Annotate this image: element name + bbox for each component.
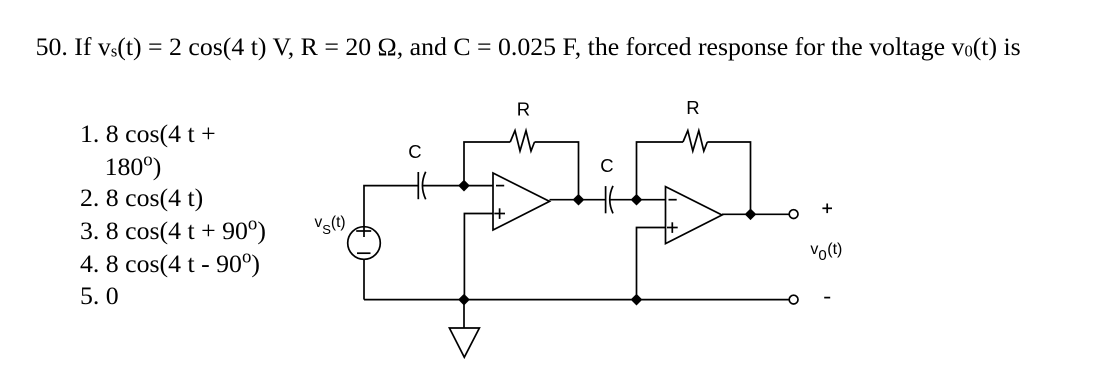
ground rail wire: [364, 299, 789, 301]
ground: [449, 300, 479, 358]
node junction J1: [459, 181, 469, 191]
op-amp U1: [493, 173, 550, 230]
node junction J4: [746, 209, 756, 219]
capacitor C2: [606, 186, 613, 214]
wire source top to cap C1: [364, 186, 418, 237]
wire op-amp U2 output to terminal: [722, 213, 789, 215]
answer 4: [80, 251, 260, 277]
node junction J3: [632, 195, 642, 205]
node junction J2: [574, 195, 584, 205]
wire cap C1 to op-amp U1 minus input: [423, 185, 493, 187]
capacitor C1: [418, 172, 425, 200]
wire op-amp U1 plus input to ground rail: [464, 214, 493, 300]
wire op-amp U2 plus input to ground rail: [637, 228, 666, 300]
title: [36, 34, 1021, 60]
label minus: [824, 297, 830, 299]
svg-text:vS(t): vS(t): [315, 214, 346, 237]
svg-text:C: C: [600, 155, 613, 176]
svg-text:R: R: [686, 97, 699, 118]
node ground junction G2: [632, 295, 642, 305]
wire source bottom to ground rail: [363, 259, 365, 299]
wire cap C2 to op-amp U2 minus input: [610, 199, 665, 201]
wire op-amp U1 output to cap C2: [550, 199, 606, 201]
svg-text:R: R: [517, 99, 530, 120]
wire feedback loop 1 right: [535, 142, 579, 200]
svg-text:v0(t): v0(t): [810, 241, 842, 264]
answer 5: [80, 283, 119, 309]
wire feedback loop 2 right: [707, 142, 750, 214]
answer 1 line 1: [80, 121, 216, 147]
wire feedback loop 2 left and top: [637, 142, 684, 200]
wire feedback loop 1 left and top: [464, 142, 510, 186]
terminal minus: [789, 295, 798, 304]
voltage source vs(t): [348, 227, 381, 260]
resistor R1: [510, 131, 534, 151]
answer 2: [80, 185, 203, 211]
answer 3: [80, 218, 266, 244]
answer 1 line 2: [105, 154, 162, 180]
node ground junction G1: [459, 295, 469, 305]
op-amp U2: [666, 187, 723, 244]
label plus: [822, 204, 832, 214]
terminal plus: [789, 210, 798, 219]
resistor R2: [683, 131, 707, 151]
svg-text:C: C: [408, 141, 421, 162]
